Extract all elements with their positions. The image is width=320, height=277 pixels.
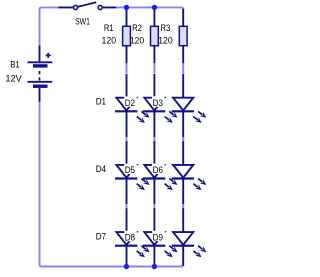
label D3 — [152, 96, 165, 108]
svg-text:D7: D7 — [96, 232, 106, 242]
battery B1 — [28, 46, 53, 102]
switch SW1 — [59, 2, 117, 9]
svg-text:D9: D9 — [153, 233, 163, 243]
svg-text:D4: D4 — [96, 164, 106, 174]
wire: battery positive up to top rail and across to switch — [40, 7, 59, 45]
wire: column 3 LED row2 to row3 — [182, 203, 184, 210]
LED D8 — [143, 208, 178, 266]
svg-text:R1: R1 — [104, 23, 114, 33]
label D2 — [124, 96, 137, 108]
junction node: top rail col2 — [152, 5, 157, 10]
label D8 — [124, 231, 137, 243]
junction node: bottom rail col1 — [124, 264, 129, 269]
junction node: top rail col1 — [124, 5, 129, 10]
wire: column 2 resistor to LED row1 — [153, 63, 155, 73]
svg-text:120: 120 — [130, 35, 145, 45]
svg-text:R3: R3 — [161, 23, 171, 33]
svg-text:120: 120 — [158, 35, 173, 45]
wire: column 1 LED row1 to row2 — [126, 136, 128, 143]
svg-text:12V: 12V — [5, 73, 22, 83]
resistor R2 — [151, 9, 159, 64]
LED D1 — [115, 74, 150, 137]
label D5 — [124, 164, 137, 176]
LED D2 — [143, 74, 178, 137]
wire: column 2 LED row2 to row3 — [153, 203, 155, 210]
resistor R1 — [123, 9, 131, 64]
svg-text:D3: D3 — [153, 98, 163, 108]
wire: column 2 LED row1 to row2 — [153, 136, 155, 143]
LED D3 — [172, 74, 207, 137]
wire: column 3 LED row1 to row2 — [182, 136, 184, 143]
LED D7 — [115, 208, 150, 266]
junction node: bottom rail col2 — [152, 264, 157, 269]
svg-text:D6: D6 — [153, 165, 163, 175]
svg-text:D5: D5 — [125, 165, 135, 175]
wire: battery negative down and along bottom rail — [40, 102, 184, 267]
svg-text:B1: B1 — [10, 60, 20, 70]
wire: column 1 resistor to LED row1 — [126, 63, 128, 73]
svg-text:120: 120 — [102, 35, 117, 45]
label D9 — [152, 231, 165, 243]
resistor R3 — [179, 9, 187, 64]
svg-text:R2: R2 — [132, 23, 142, 33]
LED D6 — [172, 141, 207, 204]
wire: switch to resistor junctions, corner down to R3 — [116, 7, 183, 11]
wire: column 3 resistor to LED row1 — [182, 63, 184, 73]
label D6 — [152, 164, 165, 176]
svg-text:D2: D2 — [125, 98, 135, 108]
svg-text:D8: D8 — [125, 233, 135, 243]
wire: column 1 LED row2 to row3 — [126, 203, 128, 210]
LED D9 — [172, 208, 207, 266]
LED D4 — [115, 141, 150, 204]
svg-text:SW1: SW1 — [75, 16, 90, 26]
LED D5 — [143, 141, 178, 204]
svg-text:D1: D1 — [96, 97, 106, 107]
